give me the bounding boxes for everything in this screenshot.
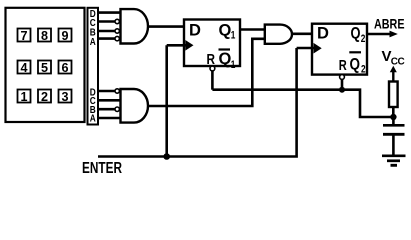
inverter bubble U2 input B	[115, 107, 119, 111]
AND gate U3	[265, 25, 292, 44]
flip-flop U4 (FF1) box	[184, 20, 240, 67]
FF2 reset stem wire	[341, 79, 344, 89]
wire D to gate U2	[98, 90, 115, 93]
node D (top group)	[90, 8, 96, 20]
node B (top group)	[90, 27, 96, 39]
svg-text:4: 4	[20, 61, 27, 75]
key 1	[18, 90, 31, 104]
svg-text:ABRE: ABRE	[374, 15, 405, 31]
svg-text:1: 1	[20, 90, 27, 104]
svg-text:R: R	[207, 52, 216, 68]
node A (bottom group)	[90, 113, 96, 125]
junction RC node	[390, 114, 396, 120]
FF1 label Q1-bar	[219, 50, 236, 72]
FF2 reset bubble	[340, 75, 345, 80]
svg-text:Q: Q	[350, 56, 361, 74]
node C (bottom group)	[90, 95, 96, 107]
svg-text:2: 2	[361, 33, 366, 45]
svg-text:5: 5	[41, 61, 48, 75]
key 3	[59, 90, 72, 104]
svg-text:2: 2	[41, 90, 48, 104]
svg-text:7: 7	[20, 29, 27, 43]
node A (top group)	[90, 36, 96, 48]
inverter bubble U2 input D	[115, 89, 119, 93]
svg-text:CC: CC	[391, 57, 405, 68]
ground	[382, 156, 406, 166]
key 8	[38, 29, 51, 43]
reset net wire	[212, 90, 393, 117]
ENTER wire	[98, 48, 297, 157]
FF1 label D	[189, 22, 201, 40]
wire B to gate U1	[98, 30, 115, 33]
svg-text:D: D	[189, 22, 201, 40]
key 5	[38, 61, 51, 75]
wire B to gate U2	[98, 108, 115, 111]
inverter bubble U1 input C	[115, 19, 119, 23]
resistor R1	[389, 82, 398, 108]
wire C to gate U2	[98, 99, 122, 102]
svg-text:A: A	[90, 113, 96, 125]
wire Q2 output with arrow	[367, 31, 398, 38]
node B (bottom group)	[90, 104, 96, 116]
node C (top group)	[90, 17, 96, 29]
svg-text:A: A	[90, 36, 96, 48]
svg-text:Q: Q	[219, 50, 232, 68]
VCC arrow up	[390, 66, 397, 82]
wire C to gate U1	[98, 20, 115, 23]
key 6	[59, 61, 72, 75]
wire resistor to junction	[392, 107, 395, 117]
FF2 clock triangle	[314, 43, 322, 54]
flip-flop U5 (FF2) box	[312, 24, 367, 75]
key 7	[18, 29, 31, 43]
wire A to gate U1	[98, 37, 115, 40]
AND gate U2 (detects 5)	[121, 89, 149, 123]
FF2 label Q2	[351, 25, 366, 45]
label ENTER	[82, 160, 122, 177]
wire ENTER to FF1 clock	[165, 45, 168, 156]
label ABRE	[374, 15, 405, 31]
wire A to gate U2	[98, 117, 122, 120]
key 2	[38, 90, 51, 104]
keypad outer box	[6, 8, 85, 122]
svg-text:8: 8	[41, 29, 48, 43]
FF1 clock triangle	[185, 40, 193, 51]
key 4	[18, 61, 31, 75]
wire D to gate U1	[98, 11, 122, 14]
svg-text:Q: Q	[219, 22, 232, 40]
node D (bottom group)	[90, 87, 96, 99]
FF1 clock wire	[167, 44, 186, 47]
FF2 label Q2-bar	[349, 52, 365, 75]
label VCC	[382, 48, 405, 68]
svg-text:ENTER: ENTER	[82, 160, 122, 174]
svg-text:1: 1	[231, 59, 236, 71]
FF2 label D	[317, 25, 329, 43]
svg-text:D: D	[317, 25, 329, 43]
FF1 reset bubble	[210, 66, 215, 71]
inverter bubble U1 input A	[115, 36, 119, 40]
svg-text:R: R	[339, 57, 347, 74]
wire Q1 to gate U3	[240, 28, 265, 31]
wire U3 output to FF2 D	[292, 32, 312, 35]
FF2 clock wire	[297, 47, 314, 50]
wire U1 output to FF1 D	[148, 25, 185, 28]
FF1 reset stem wire	[211, 71, 214, 90]
key 9	[59, 29, 72, 43]
capacitor C1	[383, 117, 405, 156]
junction FF2 reset	[339, 87, 345, 93]
inverter bubble U1 input B	[115, 29, 119, 33]
encoder strip	[88, 8, 99, 125]
AND gate U1 (detects 8)	[121, 9, 148, 43]
wire U2 output to node under U3	[148, 39, 265, 106]
svg-text:2: 2	[361, 64, 366, 76]
FF1 label R	[207, 52, 216, 68]
junction ENTER / FF1 clock	[163, 153, 170, 160]
FF2 label R	[339, 57, 347, 74]
FF1 label Q1	[219, 22, 236, 42]
svg-text:6: 6	[61, 61, 68, 75]
svg-text:Q: Q	[351, 25, 361, 43]
svg-text:1: 1	[231, 30, 236, 42]
svg-text:9: 9	[61, 29, 68, 43]
svg-text:3: 3	[61, 90, 68, 104]
